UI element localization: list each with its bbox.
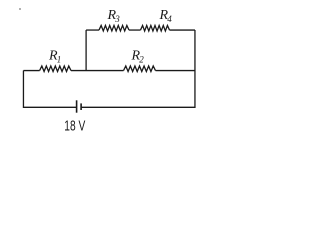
svg-text:4: 4 — [167, 14, 172, 24]
svg-text:2: 2 — [139, 55, 144, 65]
svg-text:1: 1 — [57, 55, 62, 65]
svg-text:18 V: 18 V — [64, 118, 85, 134]
svg-text:3: 3 — [114, 14, 120, 24]
